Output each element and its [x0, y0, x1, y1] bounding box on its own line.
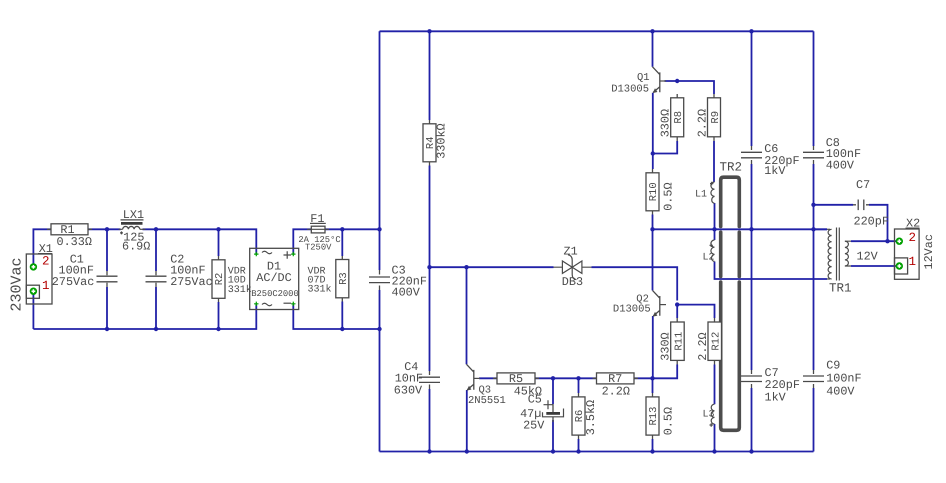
wire rail x=751.5 middle [751, 164, 753, 370]
svg-text:2.2Ω: 2.2Ω [696, 109, 710, 137]
wire X1 pin2 up [33, 229, 51, 267]
svg-text:TR1: TR1 [829, 281, 852, 295]
wire bottom left bus to D1 [33, 305, 256, 330]
resistor R2 (VDR) [212, 256, 252, 302]
capacitor C7 bottom [741, 366, 800, 404]
resistor R8 [659, 94, 686, 141]
svg-text:230Vac: 230Vac [9, 257, 26, 311]
svg-text:220pF: 220pF [854, 214, 889, 228]
wire Z1 net right to Q2 base corner [592, 267, 678, 300]
wire C2 branch [155, 229, 157, 329]
svg-text:1: 1 [909, 255, 917, 269]
node junction left rail F1 [377, 227, 381, 231]
wire L2 bottom to TR1 primary bottom [715, 262, 828, 280]
capacitor C6 [741, 142, 800, 178]
resistor R3 (VDR) [308, 256, 351, 302]
node junction top bus Q1 [650, 29, 654, 33]
svg-text:12V: 12V [857, 249, 879, 263]
resistor R5 [493, 372, 542, 398]
svg-text:L2: L2 [703, 253, 715, 264]
node junction R3 top [340, 227, 344, 231]
resistor R13 [646, 393, 676, 439]
capacitor C2 [146, 252, 213, 289]
wire C7 top branch [814, 204, 854, 206]
fuse F1 [298, 212, 340, 253]
svg-text:L1: L1 [695, 189, 707, 200]
wire R10 to mid bus [652, 215, 654, 230]
svg-text:400V: 400V [826, 385, 855, 399]
wire D1 plus pin through F1 line [293, 229, 311, 253]
wire Q1 base to R8/R9 [665, 81, 715, 94]
node junction R3 bottom [340, 327, 344, 331]
wire Q1 emitter down through R10 node [652, 93, 654, 169]
wire R13 to bottom bus [652, 439, 654, 452]
wire R4 to Z1 node [429, 166, 431, 268]
resistor R6 [572, 393, 598, 439]
wire R5 to R7 [535, 377, 597, 379]
connector X2 [895, 217, 937, 280]
wire Q3 base to R5 [479, 377, 497, 379]
wire R11 bottom to emitter node [653, 365, 677, 379]
wire Z1 net left [430, 266, 554, 268]
svg-text:331k: 331k [308, 284, 332, 296]
wire Q1 collector from top bus [652, 31, 654, 67]
capacitor C8 [803, 136, 861, 172]
svg-text:1kV: 1kV [764, 164, 786, 178]
svg-text:R13: R13 [648, 407, 660, 426]
node junction mid bus C6 rail [749, 227, 753, 231]
svg-text:100nF: 100nF [826, 372, 861, 386]
node junction C1 bottom [105, 327, 109, 331]
wire right rail x=813.5 middle [813, 164, 815, 370]
svg-text:2N5551: 2N5551 [468, 395, 506, 407]
wire mid bus to Q2 collector [652, 229, 654, 290]
svg-text:R2: R2 [214, 273, 226, 286]
node junction C5 top [551, 376, 555, 380]
svg-text:R3: R3 [338, 272, 350, 285]
node junction C2 top [154, 227, 158, 231]
node junction bottom bus R6 [576, 449, 580, 453]
node junction C2 bottom [154, 327, 158, 331]
winding L2 [703, 240, 715, 264]
svg-text:C5: C5 [528, 393, 542, 407]
svg-text:1kV: 1kV [765, 390, 787, 404]
svg-text:25V: 25V [523, 418, 545, 432]
wire TR1 secondary bottom to X2 pin 1 [851, 265, 899, 267]
svg-text:330Ω: 330Ω [659, 109, 673, 137]
node junction bottom bus C5 [551, 449, 555, 453]
winding L3 [703, 404, 715, 426]
resistor R1 [47, 223, 92, 249]
node junction R6 top [576, 376, 580, 380]
svg-text:0.5Ω: 0.5Ω [662, 407, 676, 435]
wire rail x=751.5 lower [751, 388, 753, 452]
svg-text:C7: C7 [856, 178, 870, 192]
svg-text:AC/DC: AC/DC [256, 271, 291, 285]
wire R12 bottom to L3 [714, 365, 716, 405]
wire right rail x=813.5 lower [813, 388, 815, 452]
capacitor C7 top [853, 178, 889, 228]
svg-text:TR2: TR2 [720, 161, 743, 175]
resistor R4 [423, 120, 449, 166]
svg-text:1: 1 [42, 279, 50, 293]
wire D1 minus pin to left rail bottom [293, 305, 379, 330]
transformer TR1 [827, 228, 879, 296]
resistor R10 [646, 169, 676, 215]
transformer TR2 core top segment [721, 177, 740, 226]
wire F1 to left rail [325, 228, 380, 230]
svg-text:2.2Ω: 2.2Ω [696, 332, 710, 360]
wire mid bus y=229.3 [653, 228, 828, 230]
svg-text:2: 2 [42, 255, 50, 269]
winding L1 [695, 182, 715, 204]
svg-text:12Vac: 12Vac [922, 234, 936, 269]
node junction mid bus L1 [712, 227, 716, 231]
svg-text:Z1: Z1 [564, 244, 578, 258]
wire Q2 base node to R12 [677, 305, 714, 318]
svg-text:2: 2 [909, 231, 917, 245]
transformer TR2 core bottom segment [721, 282, 740, 430]
capacitor C5 (electrolytic) [520, 393, 563, 433]
svg-text:D13005: D13005 [613, 304, 651, 316]
node junction R2 bottom [216, 327, 220, 331]
capacitor C3 [369, 263, 427, 299]
wire R3 branch [341, 229, 343, 329]
svg-text:630V: 630V [394, 383, 423, 397]
svg-text:R9: R9 [710, 111, 722, 124]
node junction X2 pin2 wire C7 [885, 239, 889, 243]
node junction C1 top [105, 227, 109, 231]
node junction bottom bus C7 rail [749, 449, 753, 453]
wire R6 branch [578, 378, 580, 451]
node junction bottom bus C4 [427, 449, 431, 453]
wire C1 branch [106, 229, 108, 329]
svg-text:0.33Ω: 0.33Ω [57, 235, 92, 249]
capacitor C9 [803, 359, 862, 399]
node junction left rail bottom [377, 327, 381, 331]
wire C5 branch [552, 378, 554, 451]
svg-text:331k: 331k [228, 284, 252, 296]
transformer TR2 core middle segment [721, 232, 740, 276]
wire R4 branch top [429, 31, 431, 120]
wire Q2 emitter down [652, 316, 654, 378]
node junction mid bus R10 [650, 227, 654, 231]
node junction bottom bus R13 [650, 449, 654, 453]
transistor Q3 [467, 364, 506, 407]
wire TR1 primary top from C8 rail [814, 228, 828, 230]
svg-text:275Vac: 275Vac [52, 275, 94, 289]
svg-text:C9: C9 [826, 359, 840, 373]
node junction Q3 collector Z1 [464, 265, 468, 269]
inductor LX1 [119, 208, 151, 254]
wire Q2 emitter node to R13 [652, 378, 654, 393]
wire C7 to X2 pin2 wire [869, 205, 888, 241]
wire rail x=751.5 upper (C6) [751, 31, 753, 146]
svg-text:Q1: Q1 [637, 72, 650, 84]
wire C4 to bottom bus [429, 389, 431, 452]
node junction C7 top branch [811, 203, 815, 207]
wire right rail x=813.5 upper [813, 31, 815, 146]
capacitor C1 [52, 252, 118, 289]
wire R7 to Q2 emitter node [634, 377, 653, 379]
wire left rail lower (C3 to bottom) [379, 290, 381, 452]
wire R2 branch [218, 229, 220, 329]
transistor Q2 [613, 290, 666, 316]
node junction R2 top [216, 227, 220, 231]
wire Q3 collector [466, 267, 468, 364]
wire Q3 emitter to bottom [466, 390, 468, 452]
transistor Q1 [611, 67, 666, 96]
wire Z1 node down to C4 [429, 267, 431, 371]
svg-text:B250C2000: B250C2000 [251, 289, 299, 299]
node junction mid bus C8 rail [811, 227, 815, 231]
svg-text:330kΩ: 330kΩ [435, 123, 449, 158]
svg-text:R8: R8 [673, 111, 685, 124]
svg-text:2.2Ω: 2.2Ω [602, 385, 630, 399]
node junction top bus R4 [427, 29, 431, 33]
diac Z1 [554, 244, 592, 289]
wire R8 bottom to emitter node [653, 141, 677, 154]
wire R9 bottom to L1 [713, 141, 715, 182]
svg-text:400V: 400V [392, 285, 421, 299]
svg-text:T250V: T250V [305, 243, 332, 253]
svg-text:400V: 400V [826, 158, 855, 172]
connector X1 [9, 242, 53, 312]
node junction Q1 emitter R8 [651, 151, 655, 155]
resistor R12 [696, 318, 723, 365]
svg-text:275Vac: 275Vac [170, 275, 212, 289]
wire Q2 base node to R11 [676, 305, 678, 318]
wire bottom bus [380, 451, 814, 453]
resistor R11 [659, 318, 686, 365]
resistor R9 [696, 94, 722, 141]
wire X1 pin1 down [32, 291, 34, 329]
svg-text:R11: R11 [673, 332, 685, 351]
wire R1 to C1 node and LX1 [88, 228, 121, 230]
svg-text:D13005: D13005 [611, 84, 649, 96]
wire L3 bottom to bottom bus [714, 424, 716, 452]
node junction Q2 base [675, 302, 679, 306]
svg-text:R12: R12 [711, 332, 723, 351]
node junction R4 Z1 [427, 265, 431, 269]
svg-text:3.5kΩ: 3.5kΩ [584, 400, 598, 435]
svg-text:DB3: DB3 [562, 275, 583, 289]
resistor R7 [593, 372, 639, 399]
svg-text:R10: R10 [648, 182, 660, 201]
svg-text:6.9Ω: 6.9Ω [122, 240, 150, 254]
wire LX1 to D1 top-left pin [143, 229, 257, 253]
node junction bottom bus L3 [712, 449, 716, 453]
wire left rail upper (to C3) [379, 31, 381, 270]
node junction bottom bus Q3 emitter [465, 449, 469, 453]
node junction top bus C6 rail [749, 29, 753, 33]
node junction Q1 base [675, 79, 679, 83]
wire top bus [380, 30, 814, 32]
wire TR1 secondary top to X2 pin 2 [851, 240, 899, 242]
svg-text:L3: L3 [703, 410, 715, 421]
node junction Q2 emitter R7 R13 [650, 376, 654, 380]
svg-text:0.5Ω: 0.5Ω [662, 182, 676, 210]
svg-text:330Ω: 330Ω [659, 332, 673, 360]
rectifier D1 [250, 248, 299, 309]
capacitor C4 [394, 360, 440, 397]
wire L2 top [714, 229, 716, 240]
wire L1 bottom to mid bus [714, 203, 716, 229]
